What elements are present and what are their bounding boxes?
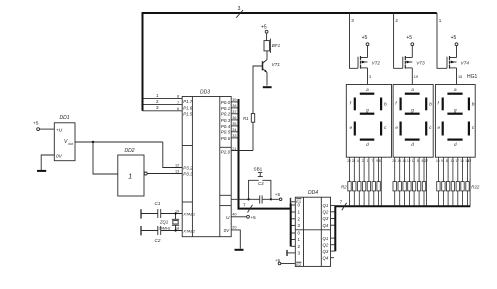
wire R1 to VT1 base [253, 66, 263, 114]
transistor VT1 [263, 60, 281, 73]
display 1 segment g [360, 108, 375, 114]
+5 terminal BF1 [261, 24, 268, 40]
display 2 segment b [426, 98, 432, 111]
voltage regulator DD1 [54, 115, 75, 161]
display 1 segment e [350, 122, 355, 136]
svg-text:P0.5: P0.5 [221, 130, 231, 135]
svg-text:11: 11 [412, 159, 416, 163]
svg-text:DD3: DD3 [200, 90, 210, 96]
svg-text:16: 16 [460, 159, 464, 163]
svg-text:e: e [350, 125, 353, 130]
svg-text:4: 4 [357, 159, 359, 163]
svg-text:+5: +5 [251, 215, 257, 220]
display pin wire + resistor R21 [460, 157, 464, 206]
svg-text:g: g [366, 108, 369, 113]
display 2 segment e [395, 122, 400, 136]
svg-text:14: 14 [402, 159, 406, 163]
svg-text:3: 3 [351, 18, 354, 23]
wire VT4 to display pin 15 [457, 68, 463, 85]
bus DD4 input vertical [290, 204, 292, 247]
ground VT1 [263, 86, 272, 88]
svg-text:9: 9 [441, 159, 443, 163]
svg-text:Q3: Q3 [323, 216, 329, 221]
svg-text:b: b [429, 102, 432, 107]
svg-text:R22: R22 [471, 185, 480, 190]
svg-text:P0.0: P0.0 [221, 100, 231, 105]
svg-text:Q1: Q1 [323, 236, 329, 241]
svg-text:23: 23 [392, 159, 396, 163]
svg-text:13: 13 [175, 169, 179, 173]
DD4 pin 3b tick [287, 250, 295, 256]
wire U pin to +5 [231, 215, 256, 220]
svg-text:P1.7: P1.7 [183, 99, 193, 104]
svg-text:3: 3 [369, 75, 371, 79]
svg-text:VT3: VT3 [416, 60, 425, 65]
svg-text:C2: C2 [155, 238, 161, 243]
bus slash 7 [243, 203, 253, 213]
display pin wire plain group 1 [379, 157, 381, 206]
svg-text:U: U [226, 215, 230, 221]
DD4 input bus stubs [291, 205, 296, 246]
svg-text:24: 24 [352, 159, 356, 163]
svg-text:5: 5 [417, 159, 419, 163]
svg-text:24MHz: 24MHz [159, 227, 171, 231]
svg-text:C3: C3 [258, 181, 264, 186]
bus segment wires (7-wire) [335, 205, 470, 207]
bus top (3-wire bus) [143, 13, 437, 111]
svg-text:22: 22 [424, 159, 428, 163]
svg-text:10: 10 [436, 159, 440, 163]
svg-text:13: 13 [451, 159, 455, 163]
display 1 segment a [360, 87, 375, 94]
display 3 segment a [447, 87, 462, 94]
wire VT3 to display pin 19 [412, 68, 418, 85]
bus slash 3 [236, 6, 243, 18]
svg-text:VT2: VT2 [372, 60, 381, 65]
svg-text:Q1: Q1 [323, 203, 329, 208]
svg-text:g: g [454, 108, 457, 113]
wire net3 to P1.5 [143, 105, 183, 111]
svg-text:12: 12 [175, 163, 179, 167]
svg-text:a: a [366, 87, 369, 92]
svg-text:SB1: SB1 [254, 167, 263, 172]
svg-text:0V: 0V [56, 153, 63, 159]
display pin wire + resistor R15 [422, 157, 426, 206]
svg-text:d: d [366, 142, 369, 147]
svg-text:40: 40 [232, 212, 236, 216]
display pin wire + resistor R18 [446, 157, 450, 206]
node junction Vout [92, 141, 94, 143]
svg-text:+U: +U [56, 127, 63, 133]
display 2 segment c [426, 122, 432, 136]
wire DD2 out to P3.3 [147, 173, 182, 175]
wire RST to SB1 [231, 198, 248, 200]
ground DD1 [37, 170, 46, 172]
svg-text:3: 3 [238, 6, 241, 12]
wire bus drop net2 [394, 13, 403, 68]
svg-text:+5: +5 [362, 35, 368, 41]
svg-text:P3.2: P3.2 [183, 165, 193, 170]
svg-text:+5: +5 [261, 24, 267, 30]
svg-text:P0.4: P0.4 [221, 124, 231, 129]
svg-text:b: b [472, 102, 475, 107]
display 3 segment e [438, 122, 443, 136]
svg-text:e: e [438, 125, 441, 130]
svg-text:R1: R1 [243, 116, 249, 121]
svg-text:19: 19 [414, 75, 418, 79]
svg-text:a: a [411, 87, 414, 92]
svg-text:20: 20 [232, 225, 236, 229]
+5 terminal DD1 [33, 121, 54, 131]
wire P2.0 to R1 [231, 122, 253, 150]
svg-text:Q4: Q4 [323, 255, 329, 260]
svg-text:HG1: HG1 [467, 74, 478, 80]
svg-text:25: 25 [347, 159, 351, 163]
capacitor C2 [141, 226, 182, 243]
svg-text:C1: C1 [155, 201, 161, 206]
display digit 1 box [346, 85, 391, 158]
DD3 P0 pin wires [231, 102, 238, 138]
svg-text:9: 9 [376, 159, 378, 163]
svg-text:DD2: DD2 [125, 148, 135, 154]
svg-text:1: 1 [367, 159, 369, 163]
svg-text:1: 1 [156, 93, 159, 98]
svg-text:P1.5: P1.5 [183, 112, 193, 117]
svg-text:b: b [384, 102, 387, 107]
svg-text:Q2: Q2 [323, 242, 329, 247]
wire DD1 0V to ground [41, 155, 54, 170]
wire bus drop net1 [437, 13, 447, 68]
display 1 segment c [381, 122, 387, 136]
svg-text:0V: 0V [224, 228, 231, 233]
display pin wire + resistor R6 [367, 157, 371, 206]
bus DD4 output vertical [334, 206, 336, 251]
display pin wire + resistor R12 [407, 157, 411, 206]
+5 terminal VT4 [451, 35, 458, 57]
wire VT1 emitter to ground [266, 72, 268, 85]
crystal ZQ1 [159, 212, 180, 231]
DD3 left pin labels [182, 99, 196, 233]
display pin wire + resistor R14 [417, 157, 421, 206]
DD3 left pin numbers [175, 95, 179, 231]
wire VT1 collector to BF1 [266, 51, 268, 60]
svg-text:16: 16 [397, 159, 401, 163]
display pin wire + resistor R10 [397, 157, 401, 206]
node SB1 right [270, 198, 272, 200]
svg-text:d: d [411, 142, 414, 147]
svg-text:12: 12 [468, 159, 472, 163]
display 1 segment f [350, 98, 355, 111]
display 3 segment f [438, 98, 443, 111]
svg-text:+5: +5 [451, 35, 457, 41]
svg-text:3: 3 [156, 105, 159, 110]
svg-text:XTAL1: XTAL1 [182, 211, 195, 216]
DD4 output pin wires [331, 205, 336, 257]
svg-text:1: 1 [128, 174, 132, 181]
display digit 3 box [435, 85, 475, 158]
display pin wire + resistor R17 [441, 157, 445, 206]
bus P0 vertical (7-wire) [239, 99, 291, 209]
display 3 segment g [447, 108, 462, 114]
svg-text:VT4: VT4 [461, 60, 470, 65]
display pin wire plain group 3 [468, 157, 472, 206]
display 1 segment d [360, 140, 375, 147]
display pin wire plain group 2 [424, 157, 428, 206]
buzzer BF1 [264, 39, 281, 53]
display pin wire + resistor R2 [347, 157, 351, 206]
DD3 right pin numbers [232, 98, 236, 229]
display pin wire + resistor R19 [451, 157, 455, 206]
display pin wire + resistor R11 [402, 157, 406, 206]
display 2 segment d [405, 140, 420, 147]
svg-text:7: 7 [340, 200, 343, 205]
bus slash 7 right [340, 200, 347, 211]
svg-text:1: 1 [439, 18, 442, 23]
pushbutton SB1 [249, 167, 271, 200]
transistor VT4 [447, 56, 469, 69]
svg-text:Q3: Q3 [323, 249, 329, 254]
display 3 segment b [469, 98, 475, 111]
wire 0V pin to ground [231, 230, 240, 249]
display pin wire + resistor R5 [362, 157, 366, 206]
svg-text:8: 8 [177, 95, 179, 99]
svg-text:7: 7 [371, 159, 373, 163]
wire to DD2 input [93, 142, 118, 174]
svg-text:P0.1: P0.1 [221, 106, 231, 111]
svg-text:E2: E2 [296, 262, 302, 267]
+5 terminal DD4 bottom [275, 258, 281, 265]
node SB1 left [247, 198, 249, 200]
wire net2 to P1.6 [141, 99, 182, 106]
svg-text:+5: +5 [406, 35, 412, 41]
svg-text:2: 2 [395, 18, 398, 23]
svg-text:R2: R2 [341, 184, 347, 189]
DD4 E2 pin [281, 262, 302, 267]
display pin wire + resistor R9 [392, 157, 396, 206]
decoder DD4 [295, 190, 330, 266]
DD4 output labels [323, 203, 329, 260]
DD4 input labels [298, 203, 301, 256]
svg-text:8: 8 [446, 159, 448, 163]
display digit 2 box [393, 85, 433, 158]
wire bus drop net3 [350, 13, 359, 68]
svg-text:17: 17 [455, 159, 459, 163]
wire DD1 Vout [75, 142, 182, 168]
display 2 segment g [405, 108, 420, 114]
+5 terminal VT3 [406, 35, 413, 57]
resistor R1 [243, 114, 255, 123]
ground DD3 [235, 249, 244, 251]
+5 terminal VT2 [362, 35, 369, 57]
svg-text:7: 7 [177, 101, 179, 105]
transistor VT3 [403, 56, 425, 69]
display pin wire + resistor R20 [455, 157, 459, 206]
svg-text:BF1: BF1 [272, 43, 281, 48]
svg-text:e: e [395, 125, 398, 130]
svg-text:+5: +5 [33, 121, 39, 127]
transistor VT2 [358, 56, 380, 69]
svg-text:2: 2 [362, 159, 364, 163]
svg-text:8: 8 [379, 159, 381, 163]
+5 terminal SB1 [275, 192, 282, 200]
svg-text:d: d [454, 142, 457, 147]
svg-text:P0.6: P0.6 [221, 136, 231, 141]
capacitor C1 [141, 201, 182, 219]
svg-text:Q2: Q2 [323, 210, 329, 215]
display pin wire + resistor R16 [436, 157, 440, 206]
inverter DD2 [118, 148, 147, 196]
display pin wire + resistor R13 [412, 157, 416, 206]
wire VT2 to display pin 3 [368, 68, 372, 85]
display pin wire + resistor R8 [376, 157, 380, 206]
DD3 right pin labels [221, 100, 231, 233]
svg-text:DD4: DD4 [308, 190, 318, 196]
display 3 segment c [469, 122, 475, 136]
svg-text:VT1: VT1 [272, 62, 281, 67]
display pin wire + resistor R3 [352, 157, 356, 206]
display 3 segment d [447, 140, 462, 147]
svg-text:+5: +5 [275, 192, 281, 197]
display pin wire + resistor R7 [371, 157, 375, 206]
svg-text:Q4: Q4 [323, 223, 329, 228]
svg-text:g: g [411, 108, 414, 113]
DD4 E1 pin [291, 198, 302, 207]
display 2 segment f [395, 98, 400, 111]
display pin wire + resistor R22 [465, 157, 469, 206]
svg-text:a: a [454, 87, 457, 92]
svg-text:P1.6: P1.6 [183, 105, 193, 110]
svg-text:XTAL2: XTAL2 [182, 228, 196, 233]
wire net1 to P1.7 [141, 93, 182, 100]
display 2 segment a [405, 87, 420, 94]
display 1 segment b [381, 98, 387, 111]
svg-text:6: 6 [177, 107, 179, 111]
svg-text:P0.3: P0.3 [221, 118, 231, 123]
svg-text:P0.2: P0.2 [221, 112, 231, 117]
svg-text:7: 7 [243, 203, 246, 208]
svg-text:P2.0: P2.0 [221, 149, 231, 154]
svg-text:DD1: DD1 [60, 115, 70, 121]
svg-text:2: 2 [156, 99, 159, 104]
svg-text:P3.3: P3.3 [183, 171, 193, 176]
capacitor C3 [249, 181, 279, 204]
svg-text:12: 12 [407, 159, 411, 163]
svg-text:ZQ1: ZQ1 [159, 220, 168, 225]
svg-text:15: 15 [458, 75, 462, 79]
display pin wire + resistor R4 [357, 157, 361, 206]
microcontroller DD3 [182, 90, 231, 237]
